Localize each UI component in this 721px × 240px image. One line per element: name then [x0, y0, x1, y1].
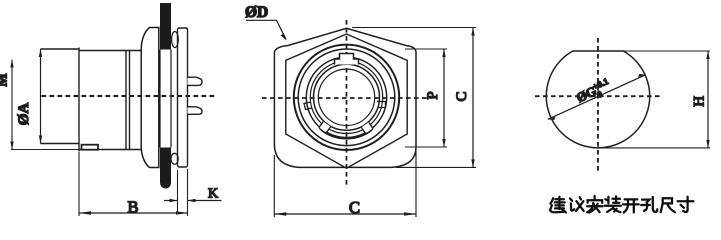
hex flange (side profile) [141, 28, 159, 168]
caption char 7 chi [661, 198, 675, 212]
dimension C right top arrow [471, 28, 474, 36]
dimension K line with outside arrows [164, 200, 178, 202]
heavy bottom arc of bayonet ring [321, 130, 371, 139]
centerline vertical (right view) [597, 38, 599, 172]
contact tab lower [188, 107, 203, 115]
caption char 6 kong [641, 197, 657, 212]
dimension OA line [40, 49, 42, 144]
dimension OA bottom arrow [39, 136, 42, 144]
dimension P line [443, 49, 445, 147]
front tube (barrel front section) [41, 49, 80, 144]
svg-text:K: K [208, 187, 218, 202]
caption: hand-drawn Chinese characters (jian yi an zhuang kai kong chi cun) [550, 196, 693, 213]
svg-text:+0.1: +0.1 [591, 76, 611, 92]
leader OD arrowhead [281, 34, 287, 41]
centerline vertical (middle view) [346, 20, 348, 186]
dimension C bottom extension left [273, 155, 275, 217]
dimension P extension top [405, 48, 447, 50]
caption char 8 cun [678, 197, 694, 212]
dimension B line [79, 212, 188, 214]
key tab lower-left [319, 122, 331, 134]
caption char 2 yi [570, 197, 584, 211]
dimension C right bottom arrow [471, 159, 474, 167]
dimension B right arrow [176, 211, 188, 214]
dimension M bottom arrow [10, 142, 13, 150]
dimension C right extension top [352, 27, 476, 29]
caption char 1 jian [550, 197, 566, 213]
bayonet ring inner circle [310, 61, 382, 133]
screw detail lower [171, 153, 178, 164]
key tab lower-right [361, 122, 373, 134]
dimension P bottom arrow [442, 139, 445, 147]
insert circle inner [318, 69, 374, 125]
dimension B extension right [187, 169, 189, 216]
gasket lower bar (solid, rounded tip) [160, 148, 171, 189]
dimension C bottom extension right [415, 150, 417, 217]
notch mark left [304, 102, 312, 110]
dimension P top arrow [442, 49, 445, 57]
dimension OA top arrow [39, 49, 42, 57]
screw detail upper [172, 32, 179, 48]
barrel main section [79, 48, 141, 152]
dimension C right line [472, 28, 474, 168]
dimension C right extension bottom [396, 166, 476, 168]
dimension K right arrow [188, 199, 196, 202]
dimension B extension left [78, 152, 80, 216]
dimension M top arrow [10, 60, 13, 68]
keyway tab on barrel bottom [82, 145, 99, 150]
centerline horizontal (right view) [535, 95, 662, 97]
svg-text:C: C [454, 91, 470, 101]
caption char 5 kai [623, 199, 639, 212]
label OG with tolerance [574, 76, 615, 108]
svg-text:H: H [692, 96, 708, 107]
dimension H top arrow [706, 51, 709, 59]
svg-text:C: C [349, 198, 360, 217]
bayonet ring outer circle [306, 57, 386, 137]
dimension OG diagonal line [548, 75, 646, 120]
coupling ring outer circle [294, 45, 399, 150]
dimension K extension left [177, 170, 179, 215]
dimension H line [707, 51, 709, 148]
flat extension line to H [623, 50, 710, 52]
dimension M line [11, 60, 13, 150]
dimension H bottom arrow [706, 140, 709, 148]
bottom tangent extension line to H [598, 147, 710, 149]
dimension C bottom left arrow [274, 212, 286, 215]
dimension K left arrow [170, 199, 178, 202]
dimension C bottom line [274, 213, 416, 215]
dimension M bottom extension [11, 149, 79, 151]
centerline horizontal (middle view) [262, 97, 432, 99]
svg-text:ØD: ØD [245, 4, 268, 21]
svg-text:ØA: ØA [16, 103, 32, 126]
caption char 3 an [587, 196, 602, 213]
panel plate [178, 28, 188, 167]
dimension OG lower-left arrow [548, 117, 556, 120]
contact tab upper [188, 77, 203, 85]
gasket upper bar (solid) [160, 3, 171, 50]
mounting hole circle with top flat [546, 51, 649, 148]
dimension B left arrow [79, 211, 91, 214]
svg-text:B: B [127, 198, 138, 217]
dimension P extension bottom [405, 146, 447, 148]
keyway tab top (two-step) [335, 54, 359, 65]
insert circle outer [314, 64, 380, 130]
gasket body edges between bars [160, 50, 171, 148]
hex nut outline [286, 34, 407, 168]
caption char 4 zhuang [605, 196, 621, 212]
leader OD [246, 20, 286, 39]
svg-text:P: P [425, 91, 441, 99]
svg-text:M: M [0, 73, 11, 86]
coupling ring inner circle [298, 49, 395, 146]
dimension OG upper-right arrow [638, 74, 646, 77]
centerline (left view) [42, 95, 216, 97]
dimension C bottom right arrow [404, 212, 416, 215]
notch mark right [377, 102, 386, 108]
flange outline (octagonal plate) [274, 28, 416, 167]
